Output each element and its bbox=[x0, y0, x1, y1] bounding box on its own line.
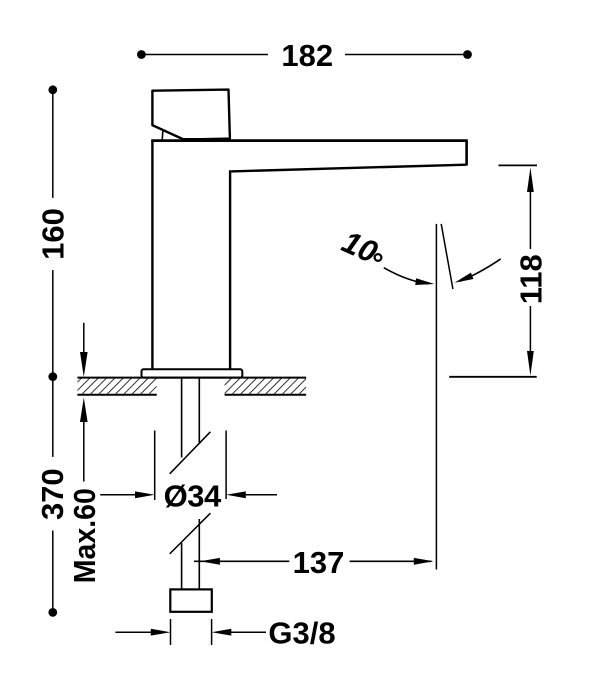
dimension 137 bbox=[194, 545, 434, 580]
handle pivot tick bbox=[161, 130, 164, 140]
Max.60 up arrowhead bbox=[80, 398, 88, 423]
G3/8 left arrowhead bbox=[151, 629, 171, 636]
countertop hatched section bbox=[77, 378, 156, 395]
diameter 34 right arrow line bbox=[245, 494, 277, 496]
svg-text:118: 118 bbox=[514, 254, 549, 304]
angle 10 degrees indicator bbox=[337, 224, 501, 570]
118 counter-level tick bbox=[449, 376, 537, 378]
370 line lower segment bbox=[52, 531, 54, 613]
supply pipe right wall lower segment bbox=[198, 519, 200, 589]
pipe break marks bbox=[170, 432, 211, 554]
lower pipe break mark bbox=[170, 513, 211, 554]
body and spout top edge bbox=[151, 139, 468, 142]
svg-text:Max.60: Max.60 bbox=[67, 488, 102, 583]
diameter 34 right extension line bbox=[225, 431, 227, 500]
diameter 34 left extension line bbox=[154, 431, 156, 501]
handle base thick seam bbox=[182, 138, 231, 142]
supply pipe bbox=[182, 378, 200, 590]
body column right edge bbox=[229, 170, 231, 369]
dimension 182 line bbox=[141, 54, 467, 56]
left dimension end dots bbox=[48, 85, 57, 94]
dimension Max.60 bbox=[67, 323, 102, 583]
svg-text:182: 182 bbox=[281, 38, 333, 73]
Max.60 down arrowhead bbox=[80, 352, 88, 377]
degree symbol bbox=[375, 254, 382, 261]
G3/8 right arrow line bbox=[231, 631, 267, 633]
svg-text:G3/8: G3/8 bbox=[268, 616, 335, 651]
G3/8 right extension line bbox=[211, 619, 213, 645]
137 left arrowhead bbox=[200, 558, 220, 565]
182 line left segment bbox=[141, 54, 268, 56]
upper pipe break mark bbox=[170, 432, 211, 474]
137 line right segment bbox=[350, 560, 432, 562]
svg-text:137: 137 bbox=[293, 545, 345, 580]
118 line lower segment bbox=[529, 306, 531, 352]
diameter 34 right arrowhead bbox=[226, 491, 246, 498]
faucet body and spout outline bbox=[151, 141, 468, 370]
svg-text:Ø34: Ø34 bbox=[164, 479, 222, 514]
dimension diameter 34 bbox=[100, 431, 277, 514]
Max.60 upper leader line bbox=[83, 323, 85, 356]
G3/8 left arrow line bbox=[115, 631, 152, 633]
svg-text:160: 160 bbox=[35, 208, 70, 260]
118 down arrowhead bbox=[527, 351, 534, 376]
diameter 34 left arrowhead bbox=[135, 491, 155, 498]
118 line upper segment bbox=[529, 190, 531, 249]
370 line upper segment bbox=[52, 377, 54, 457]
spout underside edge bbox=[231, 165, 466, 172]
left angle arc bbox=[384, 268, 428, 284]
118 spout-level tick bbox=[499, 164, 538, 166]
G3/8 right arrowhead bbox=[212, 629, 232, 636]
water stream vertical reference line bbox=[435, 224, 437, 570]
supply pipe right wall upper segment bbox=[198, 378, 200, 444]
160 line upper segment bbox=[52, 90, 54, 198]
svg-text:370: 370 bbox=[35, 468, 70, 520]
118 up arrowhead bbox=[527, 167, 534, 192]
Max.60 lower leader line bbox=[83, 420, 85, 482]
left dimension line 160/370 bbox=[52, 90, 54, 613]
diameter 34 left arrow line bbox=[100, 494, 140, 496]
right angle arc arrowhead bbox=[453, 273, 473, 286]
handle lever body bbox=[152, 90, 230, 140]
faucet handle bbox=[152, 90, 231, 140]
right angle arc bbox=[460, 259, 501, 281]
supply pipe left wall upper segment bbox=[181, 378, 183, 458]
countertop top line bbox=[77, 377, 306, 379]
182 line right segment bbox=[345, 54, 468, 56]
G3/8 connector nut bbox=[170, 589, 212, 611]
countertop bottom lines bbox=[77, 394, 156, 396]
faucet base flange bbox=[142, 369, 243, 377]
left angle arc arrowhead bbox=[415, 278, 435, 287]
G3/8 left extension line bbox=[170, 619, 172, 645]
body column left edge bbox=[151, 141, 153, 370]
137 line left segment bbox=[194, 560, 289, 562]
supply pipe left wall lower segment bbox=[181, 543, 183, 589]
dimension G3/8 bbox=[115, 616, 335, 651]
dimension 182 end dots bbox=[137, 50, 146, 59]
water stream 10-degree tilted line bbox=[441, 224, 453, 289]
137 right arrowhead bbox=[414, 558, 434, 565]
spout tip right edge bbox=[465, 141, 468, 166]
160 line lower segment bbox=[52, 270, 54, 377]
dimension 118 bbox=[449, 165, 548, 376]
